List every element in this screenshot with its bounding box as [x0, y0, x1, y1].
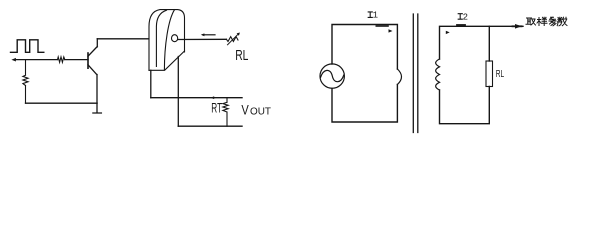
arrow to sampling output: [513, 25, 522, 27]
svg-text:RT: RT: [211, 99, 222, 115]
svg-text:OUT: OUT: [250, 106, 271, 117]
current direction arrow (left): [203, 34, 215, 36]
wire secondary lead left: [150, 70, 152, 97]
I1 current arrow: [376, 25, 388, 27]
wire bottom rail: [178, 125, 242, 127]
core hole: [172, 35, 178, 42]
wire top rail: [151, 97, 242, 99]
primary loop wires: [332, 25, 397, 70]
transistor Q1: [87, 53, 89, 68]
rail current arrow: [211, 96, 215, 99]
I1 label: [368, 12, 372, 18]
resistor RL box: [486, 61, 493, 87]
wire through core to load: [178, 38, 227, 40]
resistor RT: [223, 98, 228, 127]
square wave input signal: [11, 40, 44, 53]
svg-text:1: 1: [373, 11, 378, 21]
transformer core: [413, 14, 418, 133]
wire base right: [65, 59, 88, 61]
resistor R inline on base wire: [58, 57, 65, 62]
char 参: [549, 17, 556, 26]
svg-text:RL: RL: [496, 69, 505, 80]
primary winding bump: [397, 69, 401, 85]
wire secondary lead right: [177, 57, 179, 127]
ac current source I1: [320, 64, 344, 88]
char 数: [557, 17, 567, 26]
wire collector to core: [97, 38, 149, 40]
secondary loop wires: [440, 26, 524, 59]
wire base left: [15, 59, 58, 61]
char 取: [526, 18, 536, 25]
label 取样参数 (sampling parameters), drawn strokes: [526, 17, 567, 26]
svg-text:V: V: [241, 101, 249, 117]
resistor R1: [23, 60, 28, 104]
svg-text:2: 2: [463, 12, 468, 22]
secondary winding scallops: [436, 59, 440, 90]
I2 label: [458, 14, 462, 20]
svg-text:RL: RL: [235, 47, 248, 64]
load RL squiggle: [226, 37, 238, 42]
magnetic core (3D sensor body): [149, 10, 185, 71]
I2 current arrow: [457, 24, 465, 26]
wire bottom return: [26, 102, 98, 104]
input node arrow: [11, 58, 16, 62]
ground: [93, 103, 102, 113]
char 样: [537, 17, 547, 25]
